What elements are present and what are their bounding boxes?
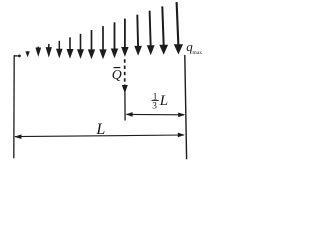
- load arrow 12: [147, 11, 155, 56]
- load dot (smallest arrow): [18, 55, 21, 58]
- svg-text:Q: Q: [112, 67, 122, 82]
- load arrow 9: [111, 22, 118, 58]
- svg-text:3: 3: [152, 101, 157, 111]
- svg-text:L: L: [95, 121, 105, 138]
- load arrow 5: [67, 37, 74, 58]
- load arrow 8: [99, 26, 106, 59]
- right extension line: [185, 55, 187, 159]
- 1/3L right arrowhead: [178, 113, 185, 118]
- resultant Q arrowhead: [122, 85, 128, 93]
- label Q bar: [112, 67, 122, 82]
- 1/3L left arrowhead: [126, 112, 133, 117]
- L left arrowhead: [14, 134, 21, 139]
- resultant Q dashed line: [124, 59, 126, 85]
- load arrow 3: [46, 44, 52, 58]
- left extension line: [13, 55, 15, 158]
- load arrow 13: [159, 6, 168, 54]
- load arrow 4: [56, 41, 63, 59]
- load arrow 1: [25, 51, 29, 57]
- load arrow 2: [35, 47, 41, 57]
- label q_max: [186, 39, 202, 56]
- load arrow 10 (above Q line): [121, 19, 128, 57]
- dimension line 1/3 L: [127, 113, 185, 115]
- load arrow 14 (tallest, at q_max): [174, 2, 183, 54]
- dimension line L: [15, 135, 184, 137]
- svg-text:max: max: [192, 50, 202, 56]
- baseline start tick: [14, 55, 18, 57]
- L right arrowhead: [178, 133, 185, 138]
- load arrow 7: [88, 30, 95, 59]
- load arrow 11: [134, 15, 142, 56]
- extension line below Q arrow: [124, 90, 126, 121]
- load arrow 6: [77, 34, 84, 59]
- label fraction 1/3 L: [152, 93, 168, 112]
- svg-text:L: L: [159, 93, 168, 109]
